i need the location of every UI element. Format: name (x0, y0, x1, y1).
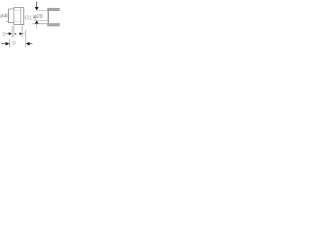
svg-text:2¹: 2¹ (2, 32, 7, 37)
svg-text:ø29: ø29 (34, 14, 43, 20)
svg-text:ø40: ø40 (0, 14, 9, 20)
svg-text:5¹: 5¹ (12, 40, 17, 45)
